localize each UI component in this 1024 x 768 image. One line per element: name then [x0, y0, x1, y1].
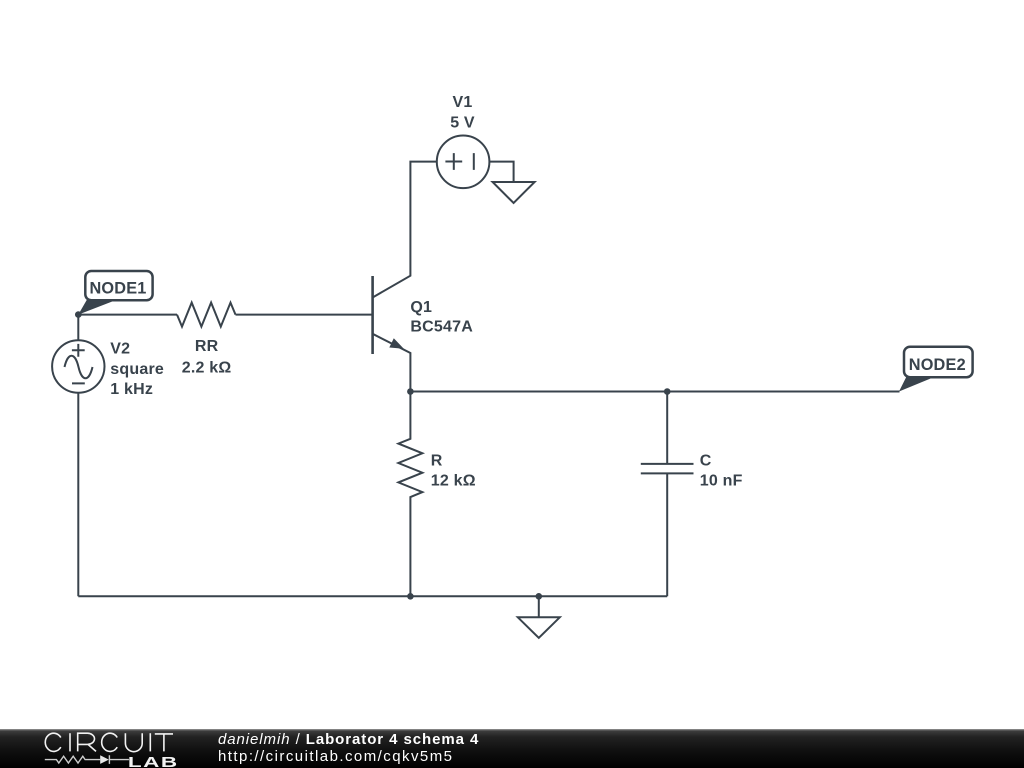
svg-text:Q1: Q1: [410, 299, 432, 316]
svg-text:12 kΩ: 12 kΩ: [431, 473, 476, 490]
svg-text:C: C: [700, 453, 712, 470]
svg-text:V1: V1: [453, 94, 473, 111]
svg-text:5 V: 5 V: [450, 114, 475, 131]
svg-text:V2: V2: [110, 341, 130, 358]
svg-text:1 kHz: 1 kHz: [110, 381, 153, 398]
svg-text:BC547A: BC547A: [410, 319, 473, 336]
svg-text:10 nF: 10 nF: [700, 473, 743, 490]
svg-text:2.2 kΩ: 2.2 kΩ: [182, 360, 232, 377]
svg-text:LAB: LAB: [128, 754, 179, 768]
svg-text:NODE1: NODE1: [89, 280, 146, 298]
svg-text:RR: RR: [195, 338, 219, 355]
svg-text:NODE2: NODE2: [909, 356, 966, 374]
svg-text:square: square: [110, 361, 164, 378]
svg-text:R: R: [431, 453, 443, 470]
